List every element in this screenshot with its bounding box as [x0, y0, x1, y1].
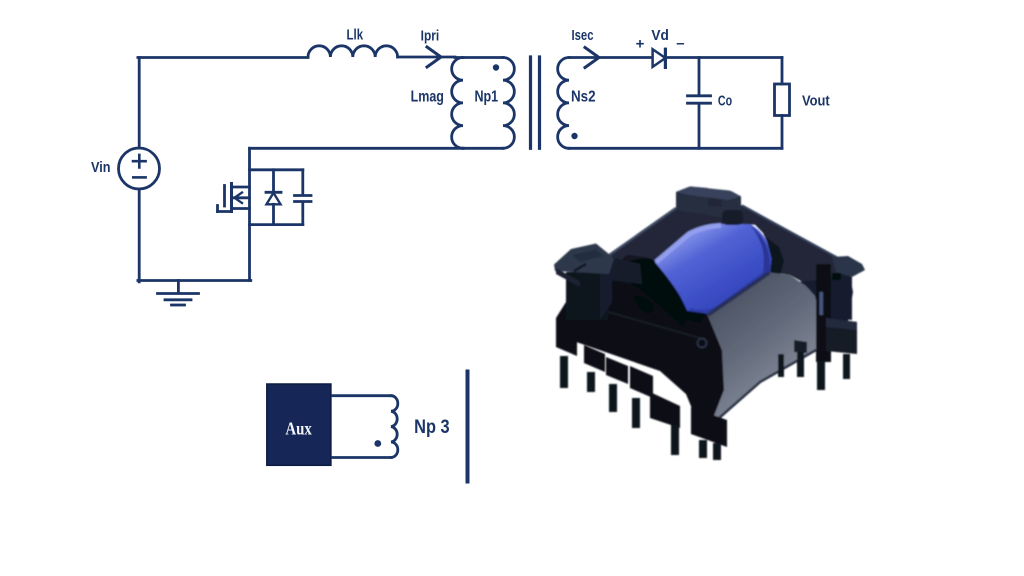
svg-text:Ns2: Ns2: [571, 89, 596, 106]
svg-text:Llk: Llk: [347, 27, 364, 44]
gray bobbin flange face: [707, 273, 818, 427]
swoosh lower blob: [634, 296, 654, 313]
svg-text:Vout: Vout: [802, 93, 830, 110]
core top plate: [605, 187, 852, 311]
right pin mid block: [794, 340, 807, 353]
wire primary bottom to MOSFET drain: [250, 147, 464, 150]
plate left ridge highlight: [605, 208, 676, 258]
left clamp body: [566, 272, 608, 320]
front bobbin mass: [556, 268, 724, 428]
core bar aux: [466, 372, 470, 482]
left notch blob: [608, 277, 627, 296]
ground: [158, 281, 199, 306]
top clamp: [676, 187, 741, 223]
resistor Vout (load): [775, 58, 790, 149]
right pin small: [778, 354, 784, 377]
wire secondary bottom rail: [569, 147, 782, 150]
left clamp slab: [554, 244, 614, 275]
right clamp notch: [832, 273, 841, 280]
swoosh core shadow: [611, 258, 689, 327]
gray face bottom rim: [710, 350, 816, 426]
top clamp top face: [676, 187, 741, 201]
winding Np3 (aux): [391, 396, 398, 458]
body diode D1: [266, 170, 281, 225]
mark 1: [574, 264, 586, 271]
right clamp pillar pin: [817, 361, 825, 390]
svg-text:+: +: [636, 36, 645, 53]
right clamp foot top: [826, 318, 857, 330]
capacitor Co: [688, 58, 711, 149]
polarity dot aux: [374, 440, 381, 447]
bobbin mid patch: [622, 265, 668, 292]
core bars: [531, 57, 540, 148]
wire top connector of parallel windings: [455, 56, 503, 59]
winding Np1 (right bumps of parallel pair): [503, 58, 514, 149]
coil-flange shadow edge: [708, 273, 770, 316]
current arrow Isec: [585, 48, 599, 68]
winding Ns2 secondary: [558, 58, 569, 149]
wire Llk to transformer: [398, 56, 455, 59]
svg-text:Np1: Np1: [474, 89, 498, 106]
pin cube 1: [556, 329, 577, 356]
corner pin cube: [691, 407, 727, 447]
bobbin ledge ridge: [566, 300, 700, 338]
pin 5: [671, 425, 679, 455]
right pin mid: [797, 352, 804, 377]
plate right ridge highlight: [742, 206, 847, 264]
wire diode to output: [667, 56, 783, 59]
coil lower shading band: [688, 270, 770, 315]
wire secondary top rail: [569, 56, 651, 59]
right clamp pillar: [816, 264, 831, 362]
transistor Q1 (MOSFET): [218, 184, 250, 212]
left clamp side: [600, 262, 612, 320]
wire aux top lead: [333, 394, 392, 397]
left clamp step shade: [572, 250, 604, 263]
svg-text:Lmag: Lmag: [411, 89, 444, 106]
wire bottom rail: [138, 279, 251, 282]
swoosh tail filler: [664, 298, 706, 323]
aux block: [267, 384, 331, 465]
wire Vin top to top rail: [138, 58, 141, 149]
svg-text:Vin: Vin: [91, 159, 111, 176]
pin cube 3: [606, 357, 628, 384]
wire aux bottom lead: [333, 456, 392, 459]
corner pin a: [699, 440, 707, 458]
wire top rail left: [138, 56, 308, 59]
inductor Llk: [308, 46, 398, 57]
voltage source Vin: [119, 148, 160, 189]
wire bottom connector of parallel windings: [463, 147, 503, 150]
pin 2: [587, 372, 595, 392]
top clamp tab: [722, 210, 743, 225]
right clamp body: [836, 272, 852, 320]
blue coil: [654, 224, 772, 315]
svg-text:Isec: Isec: [572, 27, 594, 44]
current arrow Ipri: [427, 47, 441, 67]
svg-text:Ipri: Ipri: [421, 27, 440, 44]
right clamp foot cube: [826, 318, 857, 354]
coil cap rim shading: [750, 225, 770, 278]
clamp-plate joint filler: [606, 256, 642, 284]
dark wedge right of cap: [766, 237, 784, 276]
diode Vd: [653, 49, 666, 67]
snubber capacitor: [295, 170, 312, 225]
pin 3: [609, 384, 617, 412]
mark 6: [698, 339, 707, 348]
wire snubber top: [250, 168, 303, 171]
right clamp foot pin: [843, 354, 850, 379]
pin 4: [632, 398, 640, 428]
svg-text:–: –: [676, 35, 684, 52]
corner pin b: [713, 443, 721, 460]
wire Vin bottom: [138, 189, 141, 282]
pin cube 4: [630, 366, 653, 398]
3D transformer picture: [554, 187, 865, 461]
right clamp slab: [832, 256, 865, 277]
right side dark panel: [798, 276, 853, 352]
pin cube 5: [650, 392, 680, 428]
svg-text:Co: Co: [718, 93, 732, 110]
svg-text:Vd: Vd: [651, 27, 669, 44]
svg-text:Aux: Aux: [285, 418, 312, 438]
winding Lmag (left bumps of parallel pair): [452, 58, 463, 149]
wire snubber bottom: [250, 223, 303, 226]
left clamp slab front: [556, 268, 580, 287]
svg-text:Np 3: Np 3: [414, 417, 450, 438]
pin cube 2: [584, 345, 605, 372]
bobbin tab left: [621, 254, 653, 275]
polarity dot secondary: [571, 133, 577, 139]
right clamp body highlight: [820, 292, 824, 315]
coil top highlight: [656, 226, 721, 263]
pin 1: [560, 356, 568, 388]
polarity dot primary: [493, 64, 499, 70]
wire MOSFET trunk: [248, 148, 251, 280]
